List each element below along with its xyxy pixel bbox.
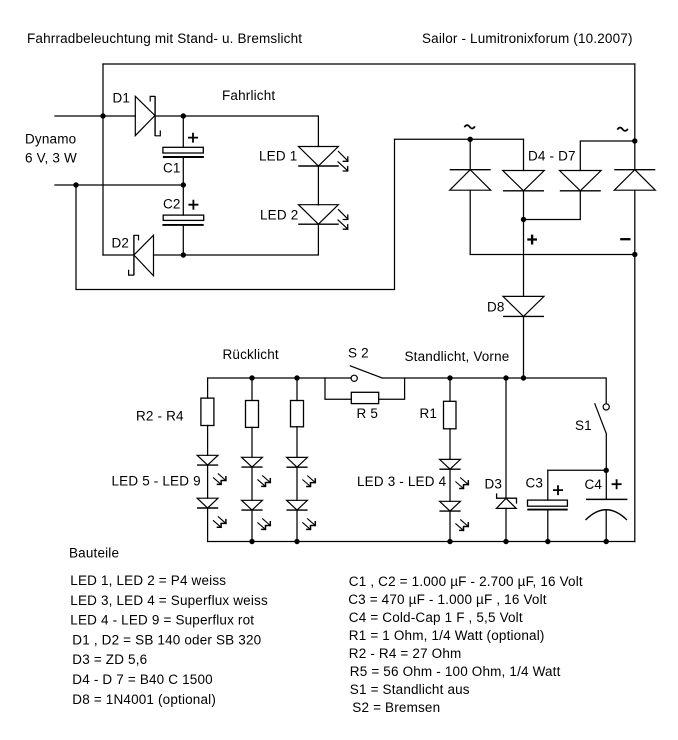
node AC1 tilde — [464, 125, 475, 128]
node C2 D2 — [181, 252, 186, 257]
bridge diode D7 — [614, 170, 655, 191]
capacitor C1 — [163, 133, 204, 157]
svg-text:C1: C1 — [163, 161, 181, 176]
parts list right — [348, 574, 583, 715]
wire R1 column — [449, 378, 451, 401]
wire LED10 to bottom rail — [296, 510, 298, 541]
resistor R1 — [444, 401, 457, 429]
node C4 top — [604, 468, 609, 473]
LED 3 — [439, 459, 469, 489]
LED 4 — [439, 501, 469, 531]
resistor R3 — [246, 401, 259, 428]
wire top rail — [103, 63, 635, 65]
wire C3 top stem — [547, 470, 549, 500]
node rail C3 — [545, 539, 550, 544]
svg-text:LED 4 - LED 9 = Superflux rot: LED 4 - LED 9 = Superflux rot — [70, 613, 254, 628]
bridge diode D5 — [503, 171, 545, 191]
wire AC1 corner down to D5 — [523, 139, 525, 170]
wire LED6 to bottom rail — [207, 508, 209, 542]
node AC2 tilde — [617, 127, 628, 130]
svg-text:LED 1, LED 2 = P4 weiss: LED 1, LED 2 = P4 weiss — [70, 573, 226, 588]
node C1 C2 midpoint — [181, 182, 186, 187]
switch S2 — [350, 366, 382, 382]
node plus symbol — [527, 235, 537, 245]
wire D4 anode down to minus rail — [470, 190, 635, 254]
svg-text:R 5: R 5 — [357, 406, 379, 421]
bridge diode D6 — [560, 171, 602, 191]
wire D5 cathode to plus node — [523, 191, 525, 220]
wire right rail upper — [634, 64, 636, 170]
svg-text:D8: D8 — [487, 300, 505, 315]
svg-text:D1: D1 — [113, 91, 131, 106]
switch S1 — [595, 403, 610, 434]
wire S2 right to S1 branch — [382, 378, 606, 404]
svg-text:LED 5 - LED 9: LED 5 - LED 9 — [112, 474, 201, 489]
svg-text:D4 - D7: D4 - D7 — [528, 149, 576, 164]
wire LED8 to bottom rail — [251, 510, 253, 541]
node AC2 — [632, 138, 637, 143]
wire dynamo upper terminal — [55, 115, 135, 117]
node standlicht R1 — [447, 375, 452, 380]
node ruecklicht R3 — [249, 375, 254, 380]
wire D8 to standlicht node — [523, 316, 525, 378]
wire R3 column — [251, 378, 253, 401]
svg-text:D4 - D 7 = B40 C 1500: D4 - D 7 = B40 C 1500 — [72, 672, 213, 687]
wire S1 bottom to C4 — [605, 434, 607, 499]
svg-text:Dynamo: Dynamo — [25, 132, 76, 147]
LED 7 — [241, 457, 271, 487]
wire LED4 to bottom rail — [449, 511, 451, 541]
node D1 cathode / C1 — [181, 113, 186, 118]
wire C2 bottom stem — [182, 225, 184, 255]
svg-text:LED 2: LED 2 — [260, 208, 298, 223]
svg-text:R2 - R4: R2 - R4 — [136, 409, 184, 424]
parts list left — [70, 573, 268, 707]
svg-text:D1 , D2 = SB 140 oder SB 320: D1 , D2 = SB 140 oder SB 320 — [72, 632, 261, 647]
svg-text:S1: S1 — [575, 418, 592, 433]
node AC1 — [468, 137, 473, 142]
LED 10 — [286, 500, 316, 530]
svg-text:Fahrlicht: Fahrlicht — [222, 88, 275, 103]
LED 9 — [286, 457, 316, 487]
svg-text:R1 = 1 Ohm, 1/4 Watt (optional: R1 = 1 Ohm, 1/4 Watt (optional) — [349, 628, 545, 643]
svg-text:R5 = 56 Ohm - 100 Ohm, 1/4 Wat: R5 = 56 Ohm - 100 Ohm, 1/4 Watt — [350, 664, 561, 679]
resistor R2 — [201, 398, 214, 425]
wire S2 bypass left — [325, 378, 351, 399]
node rail D3 — [503, 539, 508, 544]
wire bottom rail — [208, 541, 635, 543]
wire R1 to LED3 — [449, 429, 451, 460]
wire D2 anode left — [103, 254, 134, 256]
node plus — [521, 217, 526, 222]
capacitor C4 — [586, 479, 628, 520]
wire left upper vertical x=103 — [102, 64, 104, 255]
svg-text:D8 = 1N4001 (optional): D8 = 1N4001 (optional) — [72, 692, 216, 707]
svg-text:S1 = Standlicht aus: S1 = Standlicht aus — [350, 682, 470, 697]
node standlicht D8 — [521, 375, 526, 380]
wire C3 C4 top link — [548, 469, 606, 471]
node minus — [632, 252, 637, 257]
svg-text:C4: C4 — [585, 477, 603, 492]
wire C3 bottom stem — [547, 511, 549, 542]
svg-text:S 2: S 2 — [348, 346, 369, 361]
LED 2 — [298, 205, 348, 230]
wire LED1 to LED2 — [317, 166, 319, 205]
wire ruecklicht rail — [208, 377, 351, 379]
svg-text:D3 = ZD 5,6: D3 = ZD 5,6 — [72, 652, 147, 667]
wire D6 anode up to AC2 — [580, 141, 635, 171]
wire AC1 to D4 bar — [469, 139, 471, 169]
svg-text:C3 = 470 µF - 1.000 µF , 16 Vo: C3 = 470 µF - 1.000 µF , 16 Volt — [348, 592, 547, 607]
svg-text:Sailor - Lumitronixforum (10.2: Sailor - Lumitronixforum (10.2007) — [422, 31, 633, 46]
svg-text:C3: C3 — [526, 476, 544, 491]
node rail LED6 — [249, 539, 254, 544]
wire LED7 to LED8 — [251, 467, 253, 500]
node rail C4 — [604, 539, 609, 544]
capacitor C2 — [162, 200, 203, 225]
svg-text:LED 1: LED 1 — [259, 149, 297, 164]
wire R4 to LED9 — [296, 427, 298, 458]
svg-text:Standlicht, Vorne: Standlicht, Vorne — [405, 349, 510, 364]
svg-text:LED 3 - LED 4: LED 3 - LED 4 — [357, 474, 447, 489]
diode D8 — [503, 296, 544, 316]
capacitor C3 — [527, 485, 567, 509]
wire D3 column upper — [505, 378, 507, 498]
resistor R5 — [351, 392, 378, 403]
wire plus node to D8 — [523, 220, 525, 297]
wire LED5 to LED6 — [207, 465, 209, 498]
bridge diode D4 — [450, 170, 491, 191]
wire D3 to bottom rail — [505, 508, 507, 541]
svg-text:C1 , C2 = 1.000 µF - 2.700 µF,: C1 , C2 = 1.000 µF - 2.700 µF, 16 Volt — [349, 574, 583, 589]
svg-text:R2 - R4 = 27 Ohm: R2 - R4 = 27 Ohm — [349, 646, 462, 661]
node rail LED4 — [447, 539, 452, 544]
svg-text:6 V, 3 W: 6 V, 3 W — [25, 151, 77, 166]
zener diode D3 — [496, 493, 516, 508]
wire plus node to D6 — [524, 191, 581, 220]
svg-text:D3: D3 — [485, 477, 503, 492]
diode D2 schottky — [129, 235, 154, 276]
node ruecklicht R4 — [294, 375, 299, 380]
wire LED3 to LED4 — [449, 469, 451, 501]
wire LED9 to LED10 — [296, 467, 298, 500]
svg-text:LED 3, LED 4 = Superflux weiss: LED 3, LED 4 = Superflux weiss — [70, 593, 268, 608]
svg-text:C2: C2 — [163, 197, 181, 212]
node rail LED8 — [294, 539, 299, 544]
svg-text:D2: D2 — [112, 236, 130, 251]
LED 1 — [298, 147, 348, 172]
LED 8 — [241, 500, 271, 530]
wire C1 top stem — [182, 116, 184, 147]
wire R3 to LED7 — [251, 427, 253, 457]
svg-text:Bauteile: Bauteile — [69, 546, 119, 561]
wire R2 column — [207, 378, 209, 398]
node dynamo+ / D1 anode — [100, 113, 105, 118]
svg-text:Rücklicht: Rücklicht — [223, 347, 279, 362]
wire dynamo lower to AC feed — [76, 139, 524, 289]
node minus symbol — [620, 238, 630, 240]
node dynamo mid branch — [73, 182, 78, 187]
node standlicht D3 — [503, 375, 508, 380]
wire dynamo lower terminal — [55, 184, 183, 186]
svg-text:Fahrradbeleuchtung mit Stand-: Fahrradbeleuchtung mit Stand- u. Bremsli… — [27, 31, 302, 46]
wire C4 bottom stem — [605, 510, 607, 542]
diode D1 schottky — [135, 96, 160, 136]
wire S2 bypass right — [379, 378, 405, 399]
wire right rail lower — [634, 190, 636, 541]
svg-text:R1: R1 — [420, 406, 438, 421]
wire D1 cathode to LED1 column — [155, 116, 318, 147]
LED 6 — [197, 498, 227, 528]
LED 5 — [197, 455, 227, 485]
wire C2 top stem — [182, 185, 184, 215]
svg-text:S2 = Bremsen: S2 = Bremsen — [352, 700, 440, 715]
wire D2 to LED2 bottom — [154, 224, 319, 255]
wire C1 bottom stem — [182, 157, 184, 185]
svg-text:C4 = Cold-Cap 1 F , 5,5 Volt: C4 = Cold-Cap 1 F , 5,5 Volt — [349, 610, 523, 625]
wire R4 column — [296, 378, 298, 401]
resistor R4 — [291, 401, 304, 427]
wire R2 to LED5 — [207, 426, 209, 456]
